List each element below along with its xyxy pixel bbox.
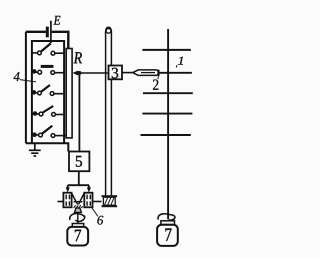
junction node bbox=[77, 71, 81, 75]
spool at rod bottom bbox=[102, 195, 118, 197]
wire junction down to box 5 bbox=[78, 73, 80, 152]
battery E long thin plate bbox=[50, 21, 52, 44]
switch box 4 outline bbox=[32, 41, 64, 143]
device 6 right bearing block bbox=[84, 193, 92, 208]
switch S5 bbox=[32, 126, 66, 138]
right weight lid bbox=[161, 221, 175, 225]
leader line of label 4 bbox=[20, 80, 36, 82]
wire box5 down with two arrows bbox=[78, 171, 80, 185]
right weight body bbox=[157, 225, 178, 246]
label 2 bbox=[153, 79, 158, 89]
hook curl right bbox=[158, 214, 170, 220]
label 1 bbox=[178, 57, 183, 65]
wire top from outer loop to battery bbox=[26, 31, 46, 33]
bottom bus wire to box 5 bbox=[26, 143, 68, 151]
leader of label 2 bbox=[157, 76, 160, 79]
battery E short thick plate bbox=[46, 27, 49, 38]
pointer end bracket bbox=[158, 70, 160, 76]
pointer inner line bbox=[141, 72, 155, 74]
switch S3 bbox=[32, 85, 64, 95]
label 5 bbox=[76, 156, 82, 167]
axle left stub bbox=[58, 201, 64, 203]
rod with eye top bbox=[105, 32, 107, 196]
device 6 pedestal bbox=[75, 208, 82, 212]
leader of label 1 bbox=[175, 65, 178, 67]
switch S4 bbox=[32, 106, 64, 116]
device 6 hatch wedge bbox=[74, 205, 83, 208]
crossbar 5 bbox=[141, 134, 191, 136]
wire box3 to pointer bbox=[122, 72, 133, 74]
axle right segment to spool bbox=[92, 201, 101, 203]
wire outer left bbox=[25, 32, 27, 143]
weight 7 body bbox=[67, 227, 88, 246]
eye hole bbox=[106, 29, 111, 34]
box 5 bbox=[69, 152, 89, 172]
weight 7 lid bbox=[72, 224, 83, 227]
label 3 bbox=[112, 68, 118, 78]
leader line of label 6 bbox=[92, 208, 98, 217]
label R bbox=[74, 52, 82, 63]
wiper arrow on R bbox=[77, 72, 109, 74]
crossbar 4 bbox=[142, 113, 192, 115]
crossbar 3 bbox=[143, 92, 193, 94]
ground bbox=[29, 143, 41, 156]
device 6 left bearing block bbox=[63, 193, 71, 208]
label E bbox=[53, 16, 60, 25]
hook curl left bbox=[70, 214, 84, 220]
label 6 bbox=[97, 216, 103, 225]
box 3 bbox=[109, 66, 123, 80]
string from device 6 to weight bbox=[77, 213, 79, 224]
crossbar 2 bbox=[158, 72, 192, 74]
label 7 right weight bbox=[165, 229, 171, 241]
wire battery to resistor top bbox=[52, 32, 69, 49]
string 1 vertical bbox=[167, 29, 169, 219]
label 4 bbox=[14, 72, 20, 81]
label 7 left weight bbox=[75, 230, 81, 241]
pointer capsule 2 bbox=[133, 70, 158, 76]
resistor R bbox=[66, 49, 72, 138]
switch S2 closed bar bbox=[32, 66, 64, 74]
crossbar 1 bbox=[142, 49, 191, 51]
switch S1 bbox=[32, 43, 64, 55]
device 6 cone spindle bbox=[72, 193, 78, 204]
